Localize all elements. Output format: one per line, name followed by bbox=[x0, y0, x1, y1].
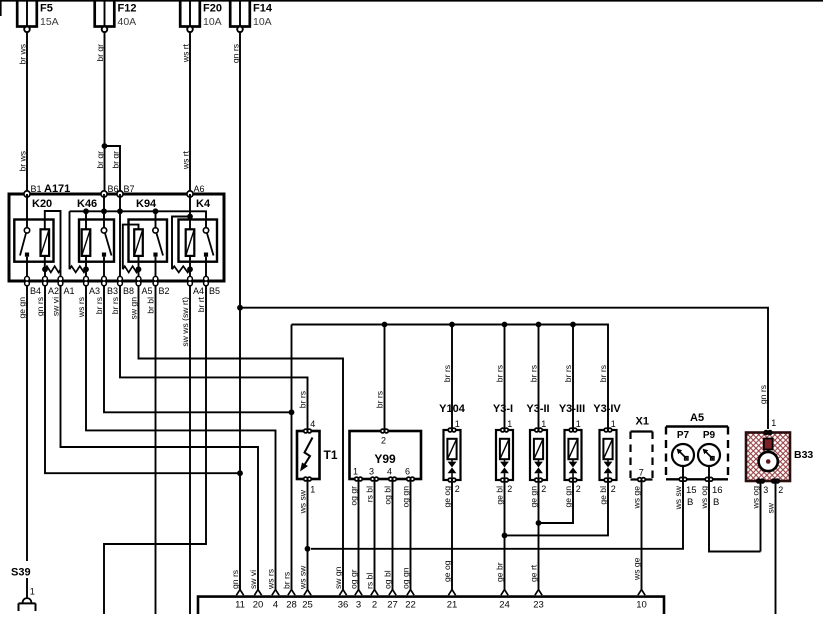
wire to A1 bbox=[60, 269, 62, 277]
svg-text:A5: A5 bbox=[690, 412, 704, 424]
svg-text:ge og: ge og bbox=[442, 560, 452, 582]
svg-text:Y99: Y99 bbox=[374, 452, 396, 466]
svg-text:F20: F20 bbox=[203, 3, 222, 15]
svg-text:F5: F5 bbox=[40, 3, 53, 15]
wire F14 gn rs to pin 11 bbox=[239, 33, 241, 590]
svg-text:2: 2 bbox=[455, 484, 460, 494]
relay carrier A171 bbox=[9, 194, 224, 281]
svg-text:rs bl: rs bl bbox=[365, 486, 375, 502]
wire br rs riser to pin 28 bbox=[291, 325, 293, 590]
svg-text:7: 7 bbox=[639, 468, 644, 478]
svg-text:A171: A171 bbox=[44, 183, 70, 195]
svg-text:ws ge: ws ge bbox=[632, 557, 642, 581]
wire A2 gn rs joins F14 wire bbox=[45, 286, 240, 474]
svg-text:2: 2 bbox=[778, 485, 783, 495]
svg-text:15A: 15A bbox=[40, 16, 59, 28]
svg-text:B2: B2 bbox=[159, 286, 170, 296]
svg-text:36: 36 bbox=[338, 600, 349, 611]
wire K94 switch to B2 bbox=[155, 257, 157, 277]
node K94 resistor join bbox=[136, 266, 142, 272]
svg-text:ws og: ws og bbox=[699, 486, 709, 510]
terminal B4 bbox=[25, 276, 30, 285]
svg-text:gn rs: gn rs bbox=[758, 385, 768, 404]
pin 21 bbox=[448, 590, 455, 596]
wire br rs to Y3-III bbox=[572, 325, 574, 430]
svg-text:ws sw: ws sw bbox=[298, 565, 308, 590]
wire br rs to Y104 bbox=[451, 325, 453, 430]
svg-text:ws og: ws og bbox=[750, 486, 760, 510]
wire Y99 pin4 og bl to pin 27 bbox=[392, 481, 394, 590]
svg-text:ws rt: ws rt bbox=[180, 150, 190, 170]
K20 coil bbox=[41, 229, 50, 256]
node br gr branch bbox=[102, 143, 108, 149]
wire K4 coil loop bbox=[172, 217, 190, 270]
svg-text:B: B bbox=[687, 497, 693, 508]
svg-text:ge gn: ge gn bbox=[17, 297, 27, 319]
resistor K94 bbox=[123, 266, 139, 272]
solenoid valve Y104 bbox=[444, 428, 461, 482]
pin 23 bbox=[535, 590, 542, 596]
svg-text:A1: A1 bbox=[64, 286, 75, 296]
svg-text:og gn: og gn bbox=[401, 486, 411, 508]
wire X1 pin7 ws ge to pin 10 bbox=[641, 481, 643, 590]
wire B33 pin 3 ws og bbox=[760, 483, 762, 552]
pin 11 bbox=[236, 590, 243, 596]
svg-text:gn rs: gn rs bbox=[35, 297, 45, 316]
K46 coil bbox=[82, 229, 91, 256]
svg-text:br rs: br rs bbox=[375, 391, 385, 408]
wire br gr branch to B7 bbox=[105, 146, 121, 191]
wire A6 to K4 coil bbox=[189, 194, 191, 229]
node gn rs junction bbox=[237, 470, 243, 476]
node ge gn join bbox=[536, 520, 542, 526]
wire K20 coil to A2 bbox=[44, 256, 46, 277]
svg-text:br ws: br ws bbox=[17, 151, 27, 172]
wire K4 switch to B5 bbox=[205, 257, 207, 277]
node K20 resistor join bbox=[42, 266, 48, 272]
svg-text:sw vi: sw vi bbox=[51, 297, 61, 316]
pin 10 bbox=[638, 590, 645, 596]
svg-text:A2: A2 bbox=[48, 286, 59, 296]
wire A4 sw ws off page bbox=[189, 286, 191, 614]
svg-text:A3: A3 bbox=[89, 286, 100, 296]
svg-text:3: 3 bbox=[356, 600, 361, 611]
svg-text:br rs: br rs bbox=[282, 572, 292, 589]
node ge bl join bbox=[502, 533, 508, 539]
terminal A4 bbox=[188, 276, 193, 285]
terminal A3 bbox=[84, 276, 89, 285]
control unit Y99 bbox=[350, 429, 422, 481]
svg-text:br bl: br bl bbox=[146, 297, 156, 314]
svg-text:br rs: br rs bbox=[495, 365, 505, 382]
wire B8 br rs to T1 bbox=[120, 286, 308, 429]
terminal A1 bbox=[58, 276, 63, 285]
K4 switch contact bbox=[203, 228, 208, 233]
fuse F14 10A bbox=[230, 0, 250, 27]
svg-text:2: 2 bbox=[541, 484, 546, 494]
svg-text:sw vi: sw vi bbox=[248, 570, 258, 589]
relay K20 bbox=[14, 220, 53, 262]
pin 2 bbox=[371, 590, 378, 596]
svg-text:1: 1 bbox=[541, 419, 546, 429]
wire Y3-I pin2 ge bl bbox=[504, 481, 506, 590]
solenoid valve Y3-II bbox=[530, 428, 547, 482]
svg-text:10A: 10A bbox=[203, 16, 222, 28]
node B7 tap bbox=[117, 208, 123, 214]
pin 20 bbox=[254, 590, 261, 596]
svg-text:3: 3 bbox=[763, 485, 768, 495]
svg-text:br rs: br rs bbox=[563, 365, 573, 382]
svg-text:A5: A5 bbox=[142, 286, 153, 296]
svg-text:1: 1 bbox=[576, 419, 581, 429]
relay K46 bbox=[79, 220, 114, 262]
svg-text:br rs: br rs bbox=[110, 297, 120, 314]
node Y3-I tap bbox=[502, 322, 508, 328]
wire K94 coil to A5 bbox=[138, 256, 140, 277]
svg-text:20: 20 bbox=[253, 600, 264, 611]
pin 24 bbox=[501, 590, 508, 596]
svg-text:16: 16 bbox=[712, 485, 723, 496]
svg-text:K46: K46 bbox=[77, 198, 97, 210]
fuse F20 10A bbox=[180, 0, 200, 27]
svg-text:br ws: br ws bbox=[17, 44, 27, 65]
terminal A6 bbox=[187, 191, 193, 197]
svg-text:og gn: og gn bbox=[401, 567, 411, 589]
gauge P9 bbox=[698, 444, 720, 466]
wire B5 br rt off page bbox=[104, 286, 206, 614]
solenoid valve Y3-IV bbox=[600, 428, 617, 482]
svg-text:4: 4 bbox=[310, 419, 315, 429]
resistor K20 bbox=[45, 266, 61, 272]
svg-text:ws sw: ws sw bbox=[298, 489, 308, 514]
svg-text:2: 2 bbox=[576, 484, 581, 494]
relay K4 bbox=[179, 220, 218, 262]
svg-text:rs bl: rs bl bbox=[365, 573, 375, 589]
svg-text:br rt: br rt bbox=[196, 296, 206, 312]
wire K46 switch to B3 bbox=[103, 257, 105, 277]
svg-text:40A: 40A bbox=[118, 16, 137, 28]
wire A5 sw gn to pin 36 bbox=[139, 286, 344, 590]
svg-text:1: 1 bbox=[771, 418, 776, 428]
wire Y3-II pin2 ge gn bbox=[538, 481, 540, 590]
svg-text:ge bl: ge bl bbox=[598, 486, 608, 505]
svg-text:S39: S39 bbox=[11, 567, 31, 579]
pin 3 bbox=[355, 590, 362, 596]
svg-text:sw: sw bbox=[765, 502, 775, 513]
wire internal bus bbox=[70, 211, 207, 227]
wire B3 br rs bbox=[104, 286, 292, 413]
K20 switch contact bbox=[24, 228, 29, 233]
svg-text:B: B bbox=[713, 497, 719, 508]
svg-text:10: 10 bbox=[636, 600, 647, 611]
wire A1 sw vi to pin 20 bbox=[61, 286, 259, 590]
wire B2 br bl off page bbox=[155, 286, 157, 614]
wire B33 pin 2 sw off page bbox=[775, 483, 777, 614]
node K94 switch tap bbox=[153, 208, 159, 214]
svg-text:K94: K94 bbox=[136, 198, 157, 210]
svg-text:P9: P9 bbox=[703, 430, 716, 441]
wire Y99 pin6 og gn to pin 22 bbox=[410, 481, 412, 590]
node Y104 tap bbox=[449, 322, 455, 328]
wire K46 coil to A3 bbox=[85, 256, 87, 277]
wire Y3-IV pin2 ge bl bbox=[505, 481, 609, 535]
svg-text:og bl: og bl bbox=[383, 486, 393, 505]
terminal B2 bbox=[153, 276, 158, 285]
wire B1 to K20 switch bbox=[26, 194, 28, 228]
pin 28 bbox=[288, 590, 295, 596]
terminal A5 bbox=[136, 276, 141, 285]
control unit connector box bbox=[198, 597, 664, 614]
svg-text:B7: B7 bbox=[124, 184, 135, 194]
wire Y3-III pin2 ge gn bbox=[539, 481, 574, 523]
wire F5 br ws to B1 bbox=[26, 33, 28, 191]
svg-text:1: 1 bbox=[310, 485, 315, 495]
svg-text:gn rs: gn rs bbox=[230, 44, 240, 63]
svg-text:A6: A6 bbox=[194, 184, 205, 194]
wire K20 coil top to A1 bbox=[45, 211, 61, 269]
svg-text:B3: B3 bbox=[107, 286, 118, 296]
svg-text:1: 1 bbox=[611, 419, 616, 429]
wire br rs to Y99 pin 2 bbox=[384, 325, 386, 430]
svg-text:6: 6 bbox=[405, 467, 410, 477]
svg-text:23: 23 bbox=[533, 600, 544, 611]
wire K94 coil loop bbox=[123, 225, 139, 270]
svg-text:28: 28 bbox=[286, 600, 297, 611]
svg-text:X1: X1 bbox=[636, 416, 649, 428]
node Y99 tap bbox=[382, 322, 388, 328]
svg-text:F14: F14 bbox=[253, 3, 273, 15]
svg-text:sw gn: sw gn bbox=[129, 297, 139, 320]
svg-text:24: 24 bbox=[499, 600, 510, 611]
svg-text:B4: B4 bbox=[30, 286, 41, 296]
svg-text:1: 1 bbox=[353, 467, 358, 477]
svg-text:Y3-II: Y3-II bbox=[526, 403, 549, 415]
wire F12 br gr to B6 bbox=[104, 33, 106, 191]
gauge P7 bbox=[672, 444, 694, 466]
svg-text:10A: 10A bbox=[253, 16, 272, 28]
svg-text:T1: T1 bbox=[324, 448, 338, 462]
svg-text:3: 3 bbox=[369, 467, 374, 477]
svg-text:ge gn: ge gn bbox=[529, 486, 539, 508]
pin 27 bbox=[389, 590, 396, 596]
svg-text:br gr: br gr bbox=[95, 151, 105, 169]
node K46 resistor join bbox=[83, 266, 89, 272]
instrument unit A5 bbox=[666, 427, 728, 480]
K94 coil bbox=[134, 229, 143, 256]
svg-text:br rs: br rs bbox=[442, 365, 452, 382]
svg-text:22: 22 bbox=[405, 600, 416, 611]
node K4 coil tap bbox=[187, 214, 193, 220]
K94 switch contact bbox=[153, 228, 158, 233]
svg-text:br rs: br rs bbox=[598, 365, 608, 382]
solenoid valve Y3-III bbox=[565, 428, 582, 482]
terminal A2 bbox=[43, 276, 48, 285]
node Y3-II tap bbox=[536, 322, 542, 328]
pin 4 bbox=[272, 590, 279, 596]
svg-text:br rs: br rs bbox=[529, 365, 539, 382]
svg-text:2: 2 bbox=[507, 484, 512, 494]
wire T1 pin1 ws sw to pin 25 bbox=[307, 481, 309, 590]
svg-text:11: 11 bbox=[235, 600, 245, 611]
svg-text:br rs: br rs bbox=[298, 391, 308, 408]
svg-text:br rs: br rs bbox=[94, 297, 104, 314]
solenoid valve Y3-I bbox=[496, 428, 513, 482]
wire K4 coil to A4 bbox=[189, 256, 191, 277]
svg-text:ws sw: ws sw bbox=[673, 485, 683, 510]
svg-text:2: 2 bbox=[372, 600, 377, 611]
br rs distribution bus bbox=[292, 325, 609, 430]
resistor K46 branch bbox=[69, 211, 71, 269]
pin 36 bbox=[339, 590, 346, 596]
relay K94 bbox=[129, 220, 168, 262]
terminal B3 bbox=[102, 276, 107, 285]
wire B7 to B8 bbox=[119, 194, 121, 277]
svg-text:sw gn: sw gn bbox=[333, 566, 343, 589]
node br rs junction bbox=[289, 409, 295, 415]
svg-text:B1: B1 bbox=[31, 184, 42, 194]
svg-text:B33: B33 bbox=[794, 449, 813, 461]
node K46 coil tap bbox=[83, 208, 89, 214]
node Y3-III tap bbox=[570, 322, 576, 328]
pin 25 bbox=[304, 590, 311, 596]
wire K20 switch to B4 bbox=[26, 257, 28, 277]
wire P7 pin 15 ws sw bbox=[682, 466, 684, 479]
svg-text:br gr: br gr bbox=[95, 44, 105, 62]
svg-text:ws ge: ws ge bbox=[632, 486, 642, 510]
svg-text:1: 1 bbox=[30, 587, 35, 597]
svg-text:og bl: og bl bbox=[383, 570, 393, 589]
svg-text:Y3-IV: Y3-IV bbox=[593, 403, 621, 415]
svg-text:ws rs: ws rs bbox=[266, 569, 276, 590]
wire F20 ws rt to A6 bbox=[189, 33, 191, 191]
connector X1 bbox=[631, 432, 653, 480]
svg-text:Y3-III: Y3-III bbox=[559, 403, 585, 415]
wire P9 pin 16 ws og bbox=[708, 466, 710, 479]
svg-text:og gr: og gr bbox=[349, 569, 359, 589]
svg-text:B8: B8 bbox=[123, 286, 134, 296]
wire br rs to Y3-II bbox=[538, 325, 540, 430]
svg-text:ge br: ge br bbox=[495, 562, 505, 582]
wire Y99 pin1 og gr to pin 3 bbox=[358, 481, 360, 590]
wire A3 ws rs to pin 4 bbox=[86, 286, 276, 590]
svg-text:ws rt: ws rt bbox=[180, 43, 190, 63]
node ws sw junction bbox=[305, 546, 311, 552]
svg-text:1: 1 bbox=[455, 419, 460, 429]
K46 switch contact bbox=[101, 228, 106, 233]
svg-text:21: 21 bbox=[447, 600, 458, 611]
svg-text:1: 1 bbox=[507, 419, 512, 429]
svg-text:A4: A4 bbox=[193, 286, 204, 296]
node B6 tap bbox=[101, 208, 107, 214]
wire Y104 pin2 ge og to pin 21 bbox=[451, 481, 453, 590]
terminal B1 bbox=[24, 191, 30, 197]
svg-text:K4: K4 bbox=[196, 198, 211, 210]
svg-text:K20: K20 bbox=[32, 198, 52, 210]
svg-text:br gr: br gr bbox=[110, 151, 120, 169]
svg-text:ge rt: ge rt bbox=[529, 564, 539, 582]
K4 coil bbox=[186, 229, 195, 256]
wire bus to K94 switch bbox=[155, 211, 157, 227]
svg-text:ge bl: ge bl bbox=[495, 486, 505, 505]
sensor B33 bbox=[746, 431, 790, 483]
node K4 resistor join bbox=[187, 266, 193, 272]
svg-text:4: 4 bbox=[273, 600, 278, 611]
fuse F12 40A bbox=[95, 0, 115, 27]
svg-text:gn rs: gn rs bbox=[230, 570, 240, 589]
resistor K4 bbox=[172, 266, 190, 272]
svg-text:ge gn: ge gn bbox=[563, 486, 573, 508]
wire B4 ge gn to S39 bbox=[26, 286, 28, 561]
wire Y99 pin3 rs bl to pin 2 bbox=[374, 481, 376, 590]
fuse F5 15A bbox=[17, 0, 37, 27]
svg-text:Y3-I: Y3-I bbox=[493, 403, 513, 415]
svg-text:og gr: og gr bbox=[349, 486, 359, 506]
wire br rs to Y3-I bbox=[504, 325, 506, 430]
svg-text:sw ws (sw rt): sw ws (sw rt) bbox=[180, 297, 190, 347]
svg-text:4: 4 bbox=[387, 467, 392, 477]
node gn rs branch to B33 bbox=[237, 305, 243, 311]
svg-text:2: 2 bbox=[611, 484, 616, 494]
svg-text:Y104: Y104 bbox=[439, 403, 466, 415]
ignition coil T1 bbox=[297, 429, 320, 481]
wire K46 coil top stub bbox=[85, 211, 87, 229]
pin 22 bbox=[407, 590, 414, 596]
terminal B8 bbox=[118, 276, 123, 285]
svg-text:P7: P7 bbox=[677, 430, 690, 441]
terminal B7 bbox=[117, 191, 123, 197]
svg-text:ge og: ge og bbox=[442, 486, 452, 508]
svg-text:ws rs: ws rs bbox=[76, 297, 86, 318]
svg-text:25: 25 bbox=[302, 600, 313, 611]
svg-text:2: 2 bbox=[381, 436, 386, 446]
wire B6 to K46 switch bbox=[103, 194, 105, 228]
terminal B5 bbox=[204, 276, 209, 285]
svg-text:B5: B5 bbox=[209, 286, 220, 296]
terminal B6 bbox=[101, 191, 107, 197]
svg-text:F12: F12 bbox=[118, 3, 137, 15]
svg-text:15: 15 bbox=[686, 485, 697, 496]
page border top bbox=[0, 0, 823, 2]
svg-text:27: 27 bbox=[387, 600, 398, 611]
